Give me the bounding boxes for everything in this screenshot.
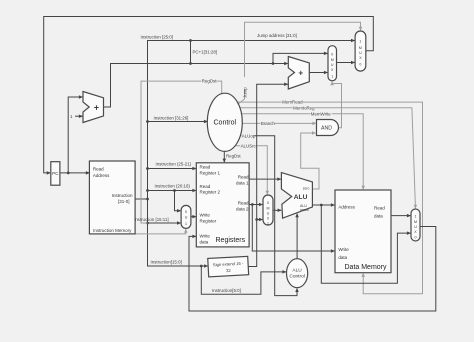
svg-text:1: 1 <box>331 75 333 79</box>
svg-text:Jump: Jump <box>242 87 247 98</box>
oval ALU control <box>287 259 308 288</box>
wire PC feedback loop (jump mux output to PC input) <box>44 17 374 173</box>
svg-text:RegDst: RegDst <box>226 154 241 159</box>
wire Jump control to jump mux select <box>238 22 361 104</box>
wire Instruction [15:11] to RegDst mux input 1 <box>134 217 180 224</box>
svg-text:0: 0 <box>359 63 361 67</box>
svg-text:data: data <box>338 255 347 260</box>
wire ALUSrc control to ALUSrc mux select <box>226 143 268 195</box>
svg-text:1: 1 <box>359 40 361 44</box>
svg-text:Instruction (25-21): Instruction (25-21) <box>156 162 192 167</box>
svg-text:Read: Read <box>200 184 211 189</box>
wire ALU control output to ALU <box>296 214 298 259</box>
svg-text:Instruction [31:26]: Instruction [31:26] <box>154 116 189 121</box>
wire RegWrite stub control bottom to registers <box>224 151 241 163</box>
svg-text:Register 2: Register 2 <box>200 190 221 195</box>
mux RegDst (write register select) <box>181 205 191 228</box>
svg-text:data: data <box>200 239 209 244</box>
wire ALUSrc mux output to ALU <box>273 209 281 211</box>
svg-text:Instruction[5:0]: Instruction[5:0] <box>212 288 241 293</box>
wire ALU result bypass to final mux input 1 <box>321 205 410 283</box>
svg-text:MemWrite: MemWrite <box>311 111 331 116</box>
svg-text:+: + <box>298 69 303 78</box>
wire AND output to branch mux select <box>332 82 341 128</box>
svg-text:Instruction [15:11]: Instruction [15:11] <box>134 217 169 222</box>
wire RegDst control loop from Control top <box>141 78 222 223</box>
wire branch mux output to jump mux input 0 <box>336 62 354 64</box>
wire branch adder output to branch mux input 1 <box>309 72 327 74</box>
svg-text:ALUSrc: ALUSrc <box>241 143 257 148</box>
svg-text:result: result <box>300 208 309 212</box>
svg-text:+: + <box>94 103 99 113</box>
wire MemRead control <box>226 99 423 294</box>
wire instruction bus down to sign extend <box>148 199 208 266</box>
svg-text:U: U <box>359 51 362 55</box>
svg-text:U: U <box>331 63 334 67</box>
svg-text:MemtoReg: MemtoReg <box>293 105 315 110</box>
arrowheads light <box>184 27 417 277</box>
mux ALUSrc <box>263 195 273 226</box>
wire PC up to adder input <box>67 97 83 174</box>
svg-text:AND: AND <box>321 126 332 132</box>
wire PC+1[31:28] up to jump address <box>189 39 217 63</box>
wire Instruction [31:26] to Control <box>146 116 207 123</box>
wire Instruction (20:16) to read register 2 <box>146 184 196 192</box>
svg-text:PC: PC <box>52 171 59 176</box>
svg-text:Read: Read <box>238 201 249 206</box>
wire ALU zero loop to AND gate <box>301 133 319 189</box>
instruction memory <box>89 161 135 234</box>
wire ALUop control to ALU control <box>226 133 298 296</box>
svg-text:M: M <box>414 220 417 224</box>
wire Branch control to AND gate <box>226 121 316 127</box>
wire Instruction[5:0] to ALU control <box>200 265 286 295</box>
svg-text:Jump address [31:0]: Jump address [31:0] <box>257 33 297 38</box>
wire Instruction (25-21) to read register 1 <box>146 162 196 170</box>
svg-text:zero: zero <box>303 187 310 191</box>
arrowheads dark <box>47 39 411 292</box>
control unit U1 <box>207 93 242 151</box>
svg-text:M: M <box>359 46 362 50</box>
constant 1 into adder <box>70 114 82 119</box>
wire instruction memory output to bus <box>135 198 149 201</box>
svg-text:Instruction: Instruction <box>112 193 133 198</box>
svg-text:Control: Control <box>289 274 304 280</box>
mux jump <box>355 31 366 71</box>
wire ALU result to data memory address <box>312 204 334 207</box>
svg-text:data 2: data 2 <box>236 207 249 212</box>
svg-text:Register 1: Register 1 <box>200 170 221 175</box>
wire RegDst mux select stub <box>135 229 186 234</box>
svg-text:Read: Read <box>200 165 211 170</box>
svg-text:data 1: data 1 <box>236 180 249 185</box>
svg-text:Control: Control <box>214 120 237 127</box>
svg-text:RegDst: RegDst <box>202 79 217 84</box>
svg-text:Instruction [25:0]: Instruction [25:0] <box>141 35 173 40</box>
wire PC+1 adder output to branch adder and branches <box>104 62 288 107</box>
svg-text:Read: Read <box>238 174 249 179</box>
sign extend unit <box>208 256 249 276</box>
svg-text:ALU: ALU <box>292 268 302 274</box>
wire read data 2 to ALUSrc mux input 0 <box>249 203 262 206</box>
svg-text:Instruction (20:16): Instruction (20:16) <box>155 184 191 189</box>
svg-text:Instruction[15:0]: Instruction[15:0] <box>151 260 182 265</box>
AND gate branch <box>317 120 339 136</box>
svg-text:MemRead: MemRead <box>282 100 303 105</box>
svg-text:1: 1 <box>267 222 269 226</box>
svg-text:M: M <box>267 207 270 211</box>
svg-text:Registers: Registers <box>216 237 246 244</box>
svg-text:ALUop: ALUop <box>242 133 256 138</box>
wire PC+1 to branch mux input 0 <box>273 53 327 63</box>
svg-text:PC+1[31:28]: PC+1[31:28] <box>193 50 218 55</box>
svg-text:Register: Register <box>200 218 217 223</box>
svg-text:Write: Write <box>200 233 211 238</box>
svg-text:M: M <box>331 58 334 62</box>
svg-text:Write: Write <box>200 212 211 217</box>
svg-text:U: U <box>185 216 188 220</box>
svg-text:[31-0]: [31-0] <box>118 199 130 204</box>
svg-text:Address: Address <box>93 173 110 178</box>
svg-text:0: 0 <box>267 201 269 205</box>
registers file <box>196 163 249 247</box>
svg-text:0: 0 <box>185 210 187 214</box>
svg-text:ALU: ALU <box>294 194 308 201</box>
register PC <box>51 162 60 186</box>
alu main <box>281 173 312 219</box>
wire sign extend output riser to branch adder <box>248 84 288 266</box>
wire data memory read data to final mux input 0 <box>391 215 410 217</box>
svg-text:Read: Read <box>93 167 104 172</box>
wire PC to Instruction Memory read address <box>60 172 90 174</box>
svg-text:U: U <box>414 225 417 229</box>
svg-text:Address: Address <box>338 204 355 209</box>
svg-text:1: 1 <box>185 222 187 226</box>
svg-text:data: data <box>374 214 383 219</box>
wire MemWrite control to data memory <box>226 111 364 190</box>
wire Instruction (20:16) branch to RegDst mux input 0 <box>173 189 180 211</box>
svg-text:U: U <box>267 212 270 216</box>
wire jump address (Instruction 25:0) <box>141 33 355 199</box>
svg-text:0: 0 <box>415 236 417 240</box>
svg-text:Write: Write <box>338 247 349 252</box>
svg-text:1: 1 <box>415 215 417 219</box>
wire writeback from final mux to registers write data <box>189 227 436 312</box>
wire RegDst mux output to write register <box>191 216 196 218</box>
mux branch (PCSrc) <box>328 46 337 81</box>
svg-text:Data Memory: Data Memory <box>345 264 388 271</box>
svg-text:Read: Read <box>374 205 385 210</box>
wire read data 1 to ALU <box>249 178 281 180</box>
wire MemtoReg control to final mux select <box>226 105 416 209</box>
svg-text:Instruction Memory: Instruction Memory <box>93 228 132 233</box>
wire read data 2 branch to data memory write data <box>252 205 334 252</box>
svg-text:0: 0 <box>331 53 333 57</box>
adder PC+1 <box>83 92 104 123</box>
wire sign extend riser branch to ALUSrc mux input 1 <box>257 219 263 221</box>
svg-text:Branch: Branch <box>261 121 275 126</box>
mux MemtoReg (final) <box>411 209 420 241</box>
data memory <box>335 190 391 273</box>
adder branch target <box>288 57 309 90</box>
